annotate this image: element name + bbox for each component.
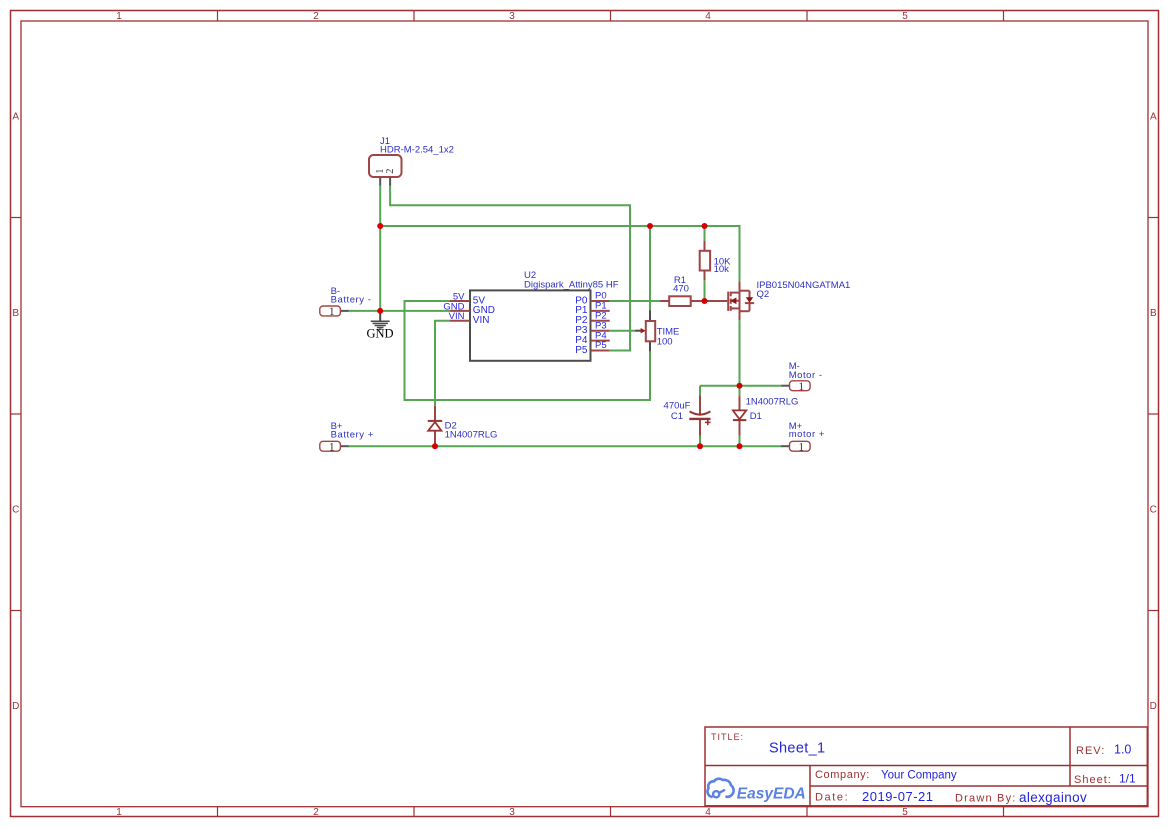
svg-text:motor +: motor + <box>789 429 825 440</box>
junction dot C1/bottom rail <box>697 443 703 449</box>
U2 pin VIN <box>449 311 490 326</box>
svg-text:4: 4 <box>705 807 711 818</box>
svg-text:HDR-M-2.54_1x2: HDR-M-2.54_1x2 <box>380 145 454 156</box>
svg-text:5: 5 <box>902 11 908 22</box>
svg-text:Date:: Date: <box>815 792 849 804</box>
svg-text:A: A <box>12 112 19 123</box>
U2 pin P4 <box>575 330 609 346</box>
svg-text:470uF: 470uF <box>664 401 691 412</box>
junction dot pot column/top rail <box>647 223 653 229</box>
wire C1 top stub <box>699 386 701 396</box>
svg-text:TITLE:: TITLE: <box>711 732 744 742</box>
EasyEDA logo <box>707 779 733 798</box>
wire J1 pin1 vertical to GND node <box>379 186 381 312</box>
U2 pin P3 <box>575 320 609 336</box>
wire top rail to 10K resistor <box>704 226 706 241</box>
svg-text:1: 1 <box>329 306 335 318</box>
svg-text:3: 3 <box>509 807 515 818</box>
svg-text:470: 470 <box>673 283 689 294</box>
svg-text:1/1: 1/1 <box>1119 772 1136 786</box>
U2 pin 5V <box>450 291 485 306</box>
wire D1 bottom stub <box>739 436 741 447</box>
svg-text:C1: C1 <box>671 411 683 422</box>
junction dot source/M- <box>737 383 743 389</box>
wire P0 to R1 <box>610 300 660 302</box>
svg-text:1N4007RLG: 1N4007RLG <box>445 430 498 441</box>
diode D1 1N4007RLG <box>733 396 799 436</box>
connector M+ motor + <box>781 421 825 453</box>
svg-text:2: 2 <box>313 11 319 22</box>
U2 pin P0 <box>575 291 609 307</box>
svg-text:Sheet_1: Sheet_1 <box>769 741 825 757</box>
U2 pin P2 <box>575 311 609 327</box>
svg-text:C: C <box>1150 505 1157 516</box>
svg-text:Your Company: Your Company <box>881 770 957 782</box>
wire P3 to pot wiper <box>610 330 635 332</box>
svg-text:Battery +: Battery + <box>331 430 374 441</box>
ground symbol GND <box>366 311 393 341</box>
connector B+ Battery + <box>320 421 374 454</box>
potentiometer TIME 100 <box>635 310 680 351</box>
junction dot gate node <box>702 298 708 304</box>
svg-text:2: 2 <box>313 807 319 818</box>
junction dot 10K/top rail <box>702 223 708 229</box>
svg-text:2019-07-21: 2019-07-21 <box>862 789 934 804</box>
svg-text:100: 100 <box>657 337 673 348</box>
wire 5V loop to potentiometer bottom <box>405 301 651 400</box>
U2 pin P1 <box>575 301 609 317</box>
resistor 10K pull-up <box>700 241 731 281</box>
svg-text:D: D <box>12 701 19 712</box>
svg-text:2: 2 <box>385 169 396 174</box>
IC U2 Digispark_Attiny85 HF <box>470 270 619 361</box>
diode D2 1N4007RLG <box>428 406 498 446</box>
wire 10K bottom to gate node <box>704 280 706 301</box>
svg-text:Q2: Q2 <box>757 289 770 300</box>
svg-text:1: 1 <box>329 441 335 453</box>
svg-text:10k: 10k <box>714 264 730 275</box>
junction dot J1.1/top rail <box>377 223 383 229</box>
wire Q2 source down <box>739 320 741 386</box>
svg-text:EasyEDA: EasyEDA <box>737 785 806 802</box>
wire C1 bottom stub <box>699 436 701 447</box>
capacitor C1 470uF <box>664 395 711 435</box>
junction dot D1/bottom rail <box>737 443 743 449</box>
svg-text:D: D <box>1150 701 1157 712</box>
svg-text:Motor -: Motor - <box>789 370 823 381</box>
svg-text:B: B <box>12 308 19 319</box>
svg-text:Battery -: Battery - <box>331 295 372 306</box>
svg-text:1: 1 <box>798 381 804 393</box>
wire D1 top stub <box>739 386 741 396</box>
svg-text:Company:: Company: <box>815 769 870 781</box>
wire B- to U2 GND pin <box>348 310 450 312</box>
svg-text:A: A <box>1150 112 1157 123</box>
connector M- Motor - <box>781 361 822 393</box>
svg-text:REV:: REV: <box>1076 745 1105 757</box>
svg-text:P5: P5 <box>575 345 588 356</box>
svg-text:TIME: TIME <box>657 326 680 337</box>
svg-text:Sheet:: Sheet: <box>1074 774 1112 786</box>
svg-text:1: 1 <box>116 807 122 818</box>
connector J1 HDR-M-2.54_1x2 <box>369 136 454 186</box>
svg-text:Drawn By:: Drawn By: <box>955 793 1017 805</box>
svg-text:B: B <box>1150 308 1157 319</box>
title block <box>705 727 1147 806</box>
svg-text:IPB015N04NGATMA1: IPB015N04NGATMA1 <box>757 280 851 291</box>
svg-text:5: 5 <box>902 807 908 818</box>
svg-text:4: 4 <box>705 11 711 22</box>
wire net GND top rail J1.1 to Q2 drain <box>380 226 739 281</box>
resistor R1 470 <box>660 275 704 306</box>
wire VIN to D2 cathode <box>435 321 450 406</box>
svg-text:C: C <box>12 505 19 516</box>
svg-text:3: 3 <box>509 11 515 22</box>
junction dot B-/GND <box>377 308 383 314</box>
U2 pin GND <box>443 301 495 316</box>
svg-text:1.0: 1.0 <box>1114 743 1131 757</box>
wire top rail to pot top <box>649 226 651 310</box>
svg-text:VIN: VIN <box>449 311 465 322</box>
svg-text:Digispark_Attiny85 HF: Digispark_Attiny85 HF <box>524 279 619 290</box>
svg-text:GND: GND <box>366 327 393 341</box>
U2 pin P5 <box>575 340 609 356</box>
MOSFET Q2 IPB015N04NGATMA1 <box>705 280 851 320</box>
svg-text:P5: P5 <box>595 340 607 351</box>
wire M- row <box>700 385 781 387</box>
connector B- Battery - <box>320 286 372 318</box>
svg-text:alexgainov: alexgainov <box>1019 790 1087 805</box>
svg-text:1: 1 <box>116 11 122 22</box>
svg-text:D1: D1 <box>750 411 762 422</box>
wire bottom rail B+ to M+ <box>348 445 781 447</box>
svg-text:VIN: VIN <box>473 315 490 326</box>
junction dot D2/bottom rail <box>432 443 438 449</box>
wire J1 pin2 to P5 <box>390 186 630 351</box>
svg-text:1N4007RLG: 1N4007RLG <box>746 397 799 408</box>
svg-text:1: 1 <box>798 441 804 453</box>
